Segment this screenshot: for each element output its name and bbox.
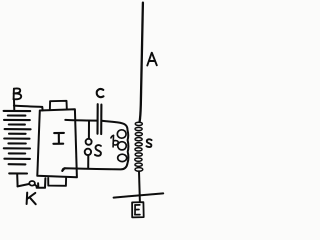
key K lever	[18, 184, 29, 186]
label s	[146, 139, 151, 147]
label C	[97, 89, 104, 97]
key contact post	[37, 183, 39, 187]
bottom lead wire from box to primary	[62, 168, 65, 171]
spark gap bottom lead	[87, 156, 89, 168]
spark gap top lead	[88, 121, 90, 138]
wire coil to earth	[138, 171, 141, 202]
primary coil loop wire (top lead, right side, bottom return)	[62, 121, 128, 171]
battery B plates	[4, 111, 31, 164]
earth box E	[132, 202, 144, 217]
battery top stub	[13, 100, 15, 110]
induction coil box	[37, 109, 77, 177]
label E	[135, 205, 140, 215]
key contact arm	[35, 185, 37, 187]
spark gap ball 2	[85, 149, 91, 155]
top terminal block	[50, 101, 67, 109]
wire key to box	[37, 178, 46, 188]
top lead wire from box to capacitor	[65, 119, 97, 122]
label P	[111, 135, 118, 147]
battery bottom terminal bar	[9, 172, 27, 174]
capacitor C plates	[96, 104, 98, 134]
label A	[147, 53, 157, 66]
battery bottom stem	[16, 174, 18, 186]
label S	[95, 145, 101, 156]
label K	[27, 193, 36, 205]
antenna coil s (loops)	[135, 122, 143, 171]
ground line	[114, 193, 164, 197]
wire battery to box	[14, 106, 43, 111]
bottom terminal block	[48, 178, 66, 186]
key knob loop	[29, 181, 35, 186]
label B	[14, 88, 22, 99]
label I	[53, 133, 64, 144]
antenna wire A	[140, 3, 143, 122]
spark gap ball 1	[86, 139, 92, 145]
primary coil P loops	[117, 130, 126, 162]
